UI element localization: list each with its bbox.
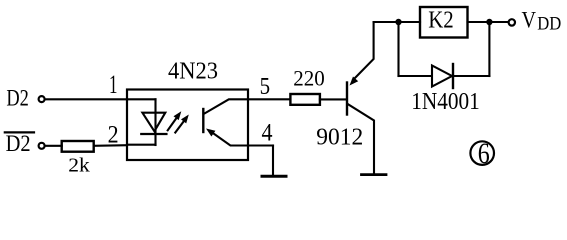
- svg-text:220: 220: [293, 66, 325, 91]
- svg-text:D2: D2: [6, 85, 29, 110]
- svg-text:1N4001: 1N4001: [411, 89, 480, 115]
- svg-text:4N23: 4N23: [168, 58, 218, 84]
- svg-text:D2: D2: [6, 131, 31, 157]
- svg-text:K2: K2: [428, 7, 454, 34]
- svg-text:1: 1: [109, 70, 118, 99]
- svg-text:DD: DD: [537, 14, 561, 34]
- svg-text:V: V: [522, 8, 537, 33]
- svg-text:2: 2: [108, 122, 119, 149]
- svg-text:9012: 9012: [316, 125, 363, 151]
- svg-text:5: 5: [260, 74, 271, 100]
- svg-text:2k: 2k: [68, 155, 90, 177]
- svg-text:4: 4: [262, 120, 273, 147]
- svg-text:6: 6: [478, 137, 490, 170]
